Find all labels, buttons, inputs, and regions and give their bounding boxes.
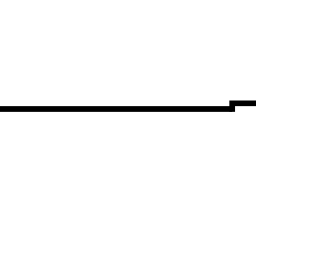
wire [0,106,232,112]
wire [229,101,235,112]
wire [232,101,259,107]
